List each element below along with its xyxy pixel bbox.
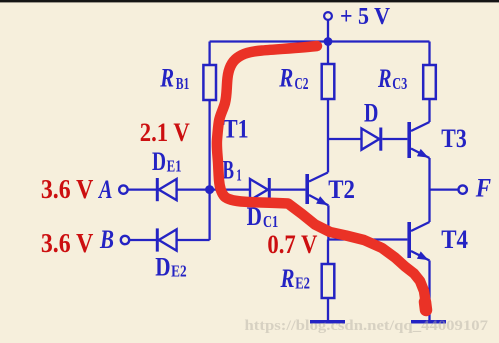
svg-text:F: F [475, 173, 491, 202]
svg-text:T1: T1 [223, 114, 249, 143]
svg-text:+ 5 V: + 5 V [340, 4, 391, 30]
svg-text:D: D [152, 147, 166, 176]
svg-text:D: D [155, 252, 170, 281]
svg-text:C1: C1 [263, 212, 278, 231]
svg-text:B: B [99, 225, 114, 254]
svg-text:R: R [377, 64, 391, 93]
svg-text:0.7 V: 0.7 V [267, 229, 317, 259]
svg-text:T4: T4 [441, 225, 468, 254]
svg-text:E1: E1 [167, 157, 182, 176]
svg-text:R: R [280, 264, 295, 293]
svg-text:B1: B1 [176, 74, 190, 93]
svg-text:A: A [97, 175, 112, 204]
svg-text:E2: E2 [171, 262, 187, 281]
svg-text:https://blog.csdn.net/qq_44009: https://blog.csdn.net/qq_44009107 [245, 318, 489, 334]
svg-text:C2: C2 [295, 74, 309, 93]
svg-text:2.1 V: 2.1 V [140, 117, 190, 147]
svg-text:E2: E2 [295, 274, 310, 293]
svg-text:D: D [364, 99, 378, 128]
svg-text:T3: T3 [441, 124, 466, 153]
svg-text:3.6 V: 3.6 V [41, 174, 94, 204]
svg-text:1: 1 [236, 166, 242, 185]
svg-text:3.6 V: 3.6 V [41, 228, 94, 258]
svg-text:C3: C3 [392, 74, 407, 93]
svg-text:R: R [278, 64, 293, 93]
svg-text:R: R [160, 63, 175, 92]
svg-text:T2: T2 [328, 175, 355, 204]
